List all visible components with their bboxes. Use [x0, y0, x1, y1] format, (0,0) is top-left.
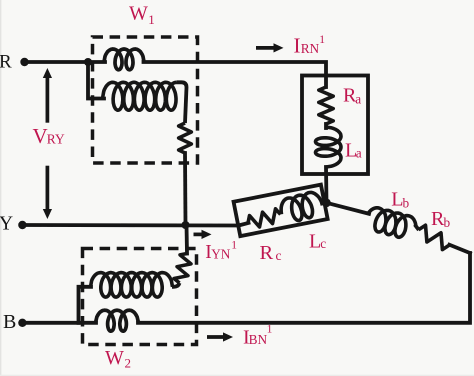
- wire W2 junction to resistor: [185, 225, 189, 254]
- terminal dot B: [18, 319, 26, 327]
- image bottom edge artifact: [0, 374, 474, 376]
- svg-text:R: R: [260, 242, 274, 264]
- wire Lb to Rb: [416, 226, 418, 228]
- wire Y rail into box C: [239, 223, 249, 226]
- svg-text:1: 1: [267, 324, 273, 336]
- wire W1 resistor to Y junction: [183, 153, 187, 225]
- terminal dot Y: [18, 221, 26, 229]
- inductor Lc: [281, 192, 322, 220]
- load box C boundary (tilted): [234, 185, 328, 236]
- wire W1 pressure tap down: [88, 62, 104, 99]
- svg-text:B: B: [3, 311, 16, 333]
- svg-text:YN: YN: [211, 246, 231, 261]
- terminal dot R: [20, 58, 28, 66]
- wire Rb to B rail corner: [449, 245, 470, 253]
- junction dot Y rail / pressure branches: [182, 221, 190, 229]
- W2 multiplier resistor: [174, 254, 191, 284]
- svg-text:c: c: [320, 236, 326, 251]
- svg-text:RY: RY: [47, 131, 65, 146]
- svg-text:1: 1: [231, 239, 237, 251]
- inductor Lb: [368, 208, 416, 238]
- svg-text:b: b: [444, 215, 451, 230]
- resistor Rb: [419, 225, 450, 249]
- wire Y rail: [22, 223, 238, 227]
- W2 current coil CC2: [96, 310, 139, 331]
- voltage arrow VRY upper: [46, 77, 50, 123]
- svg-text:I: I: [294, 34, 301, 58]
- svg-text:b: b: [403, 195, 410, 210]
- current arrow IYN: [194, 233, 203, 237]
- svg-text:BN: BN: [249, 332, 268, 347]
- svg-text:V: V: [33, 124, 48, 148]
- wattmeter W1 dashed boundary: [93, 37, 198, 163]
- wire W1 pressure coil to resistor: [177, 82, 187, 123]
- wire W2 pressure coil left down to B rail: [79, 287, 92, 323]
- svg-text:1: 1: [148, 12, 155, 27]
- svg-text:W: W: [129, 3, 148, 25]
- svg-text:a: a: [355, 92, 361, 107]
- star node N dot: [322, 199, 331, 208]
- svg-text:R: R: [0, 51, 12, 72]
- current arrow IBN: [207, 335, 224, 339]
- image left edge artifact: [0, 0, 2, 376]
- junction dot R rail / W1 pressure tap: [84, 58, 92, 66]
- W1 multiplier resistor: [179, 123, 192, 153]
- resistor Ra: [319, 87, 333, 124]
- wire B rail right segment: [138, 253, 470, 323]
- wire W2 resistor to pressure coil: [172, 283, 180, 287]
- wire node N to Lb: [327, 203, 370, 214]
- wire R rail left segment: [25, 60, 106, 64]
- wire R rail right segment: [144, 62, 327, 87]
- svg-text:a: a: [356, 145, 362, 160]
- wire Ra to La: [324, 124, 328, 128]
- wire B rail left segment: [22, 321, 96, 325]
- current arrow IRN: [256, 46, 275, 50]
- svg-text:1: 1: [319, 34, 325, 46]
- wire La to star node: [324, 167, 328, 203]
- W1 current coil CC1: [104, 49, 144, 70]
- svg-text:c: c: [276, 248, 282, 263]
- W1 pressure coil PC1: [103, 82, 177, 110]
- svg-text:Y: Y: [0, 214, 13, 235]
- wattmeter W2 dashed boundary: [83, 249, 197, 345]
- voltage arrow VRY lower: [46, 166, 50, 210]
- load box A boundary: [302, 76, 368, 175]
- resistor Rc: [248, 209, 281, 227]
- svg-text:W: W: [105, 347, 124, 369]
- inductor La: [316, 127, 342, 167]
- wire Lc to star node: [322, 201, 326, 206]
- W2 pressure coil PC2: [91, 273, 173, 298]
- svg-text:2: 2: [125, 356, 132, 371]
- svg-text:RN: RN: [301, 41, 320, 56]
